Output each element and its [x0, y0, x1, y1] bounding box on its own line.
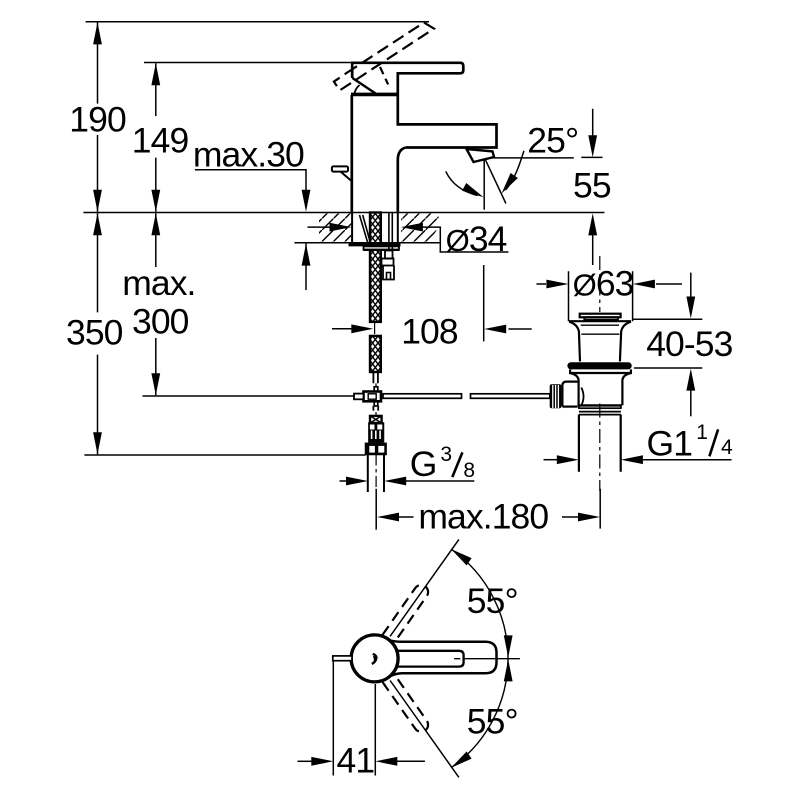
svg-text:55°: 55°: [467, 581, 518, 621]
svg-text:41: 41: [337, 741, 375, 781]
svg-text:25°: 25°: [527, 121, 578, 161]
svg-text:8: 8: [463, 459, 475, 482]
svg-text:108: 108: [401, 311, 458, 351]
svg-text:1: 1: [696, 421, 708, 444]
svg-text:Ø63: Ø63: [573, 263, 634, 303]
svg-text:max.180: max.180: [418, 497, 548, 537]
svg-text:55°: 55°: [467, 702, 518, 742]
svg-text:4: 4: [721, 436, 733, 459]
svg-text:G1: G1: [647, 424, 693, 464]
svg-text:3: 3: [440, 443, 452, 466]
svg-text:Ø34: Ø34: [446, 219, 507, 259]
svg-text:190: 190: [69, 100, 126, 140]
svg-text:149: 149: [132, 121, 189, 161]
svg-text:55: 55: [573, 165, 611, 205]
svg-text:max.: max.: [122, 263, 195, 303]
svg-text:350: 350: [66, 313, 123, 353]
svg-text:G: G: [410, 444, 437, 484]
svg-text:max.30: max.30: [193, 135, 304, 175]
svg-text:40-53: 40-53: [646, 324, 732, 364]
svg-text:300: 300: [132, 302, 189, 342]
